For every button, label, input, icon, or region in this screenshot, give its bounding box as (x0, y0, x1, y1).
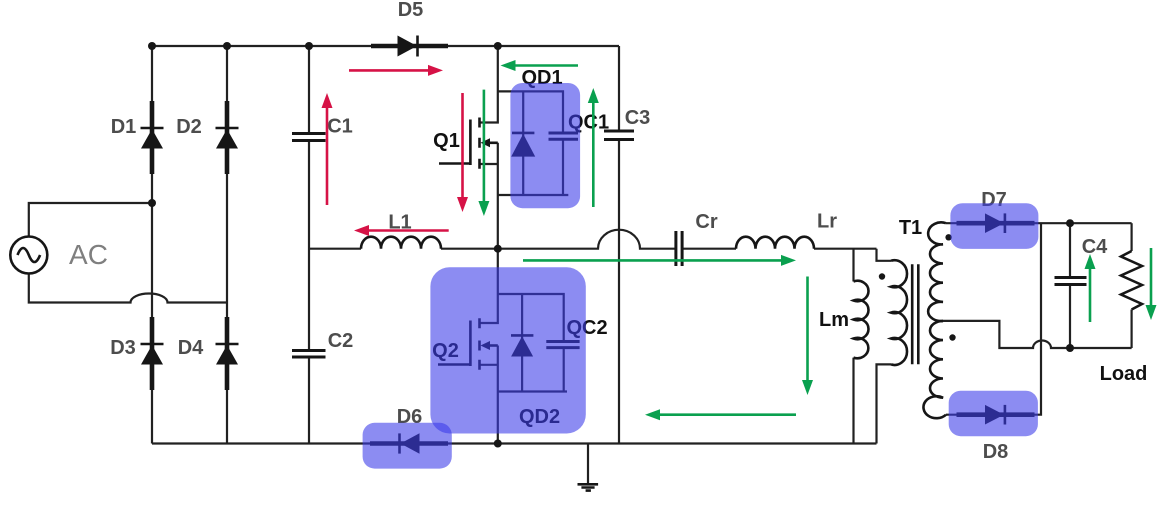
wire top rail (152, 45, 619, 47)
arrow red down Q1 (457, 93, 468, 212)
diode D4 (216, 317, 239, 390)
secondary polarity dot top (945, 234, 951, 240)
primary polarity dot (879, 273, 885, 279)
diode D2 (216, 101, 239, 174)
highlight box D6 (363, 423, 452, 469)
capacitor C1 (292, 134, 326, 141)
wire Lm branch (852, 249, 854, 444)
arrow red left L1 (354, 225, 449, 236)
svg-text:AC: AC (69, 239, 108, 270)
wire C1 C2 column (308, 46, 310, 444)
svg-text:C2: C2 (328, 330, 354, 352)
highlight box Q2 (430, 267, 585, 433)
capacitor QC2 (563, 348, 565, 392)
diode D6 (370, 433, 448, 453)
wire D1 D3 column (151, 46, 153, 444)
inductor Lr (736, 237, 814, 249)
capacitor C3 (604, 131, 634, 140)
capacitor Cr (676, 231, 682, 266)
svg-text:Cr: Cr (695, 211, 717, 233)
AC source U0 (10, 237, 47, 274)
secondary polarity dot bottom (949, 334, 955, 340)
arrow green up C4 (1085, 254, 1096, 322)
junction node AC D1 (148, 199, 156, 207)
wire QD2 branch bottom (498, 390, 567, 392)
svg-text:D1: D1 (111, 116, 137, 138)
svg-text:D3: D3 (110, 337, 136, 359)
svg-text:Load: Load (1100, 363, 1148, 385)
wire D2 D4 column (226, 46, 228, 444)
diode D1 (141, 101, 164, 174)
junction node top rail C1 (305, 42, 313, 50)
wire Q2 drain column (480, 249, 498, 323)
diode D3 (141, 317, 164, 390)
diode D8 (957, 405, 1035, 425)
inductor L1 (361, 237, 441, 249)
svg-text:D8: D8 (983, 441, 1009, 463)
junction node C4 bottom (1066, 344, 1074, 352)
wire QD1 branch bottom (498, 194, 569, 196)
wire C3 column (618, 46, 620, 444)
diode D5 (371, 36, 448, 57)
arrow red right top (349, 65, 443, 76)
arrow green left bottom (645, 409, 796, 420)
svg-text:D2: D2 (176, 116, 202, 138)
svg-text:D5: D5 (398, 0, 424, 21)
ground (578, 444, 599, 491)
transformer T1 secondary top winding (928, 222, 946, 321)
svg-text:Q1: Q1 (433, 130, 460, 152)
inductor Lm (854, 281, 869, 358)
svg-text:C3: C3 (625, 107, 651, 129)
arrow red up C1 (322, 93, 333, 205)
svg-text:Lr: Lr (817, 211, 837, 233)
highlight box QD1 QC1 (510, 83, 580, 208)
wire QD2 branch top (498, 294, 564, 342)
svg-text:D4: D4 (178, 337, 204, 359)
junction node top rail D1 (148, 42, 156, 50)
svg-text:Lm: Lm (819, 309, 849, 331)
wire D8 branch (946, 223, 1041, 415)
junction node C4 top (1066, 219, 1074, 227)
wire middle rail with hop over C3 (309, 230, 877, 249)
transformer T1 primary winding (891, 260, 907, 365)
capacitor C2 (292, 351, 326, 358)
wire QD1 branch top (498, 91, 563, 133)
resistor Load (1121, 223, 1142, 348)
wire center tap return with hop (943, 321, 1132, 348)
transistor Q2 (438, 318, 498, 370)
junction node top rail Q1 (494, 42, 502, 50)
wire primary bottom (877, 364, 892, 443)
diode QD2 (511, 294, 533, 392)
wire Q1 drain column (480, 46, 498, 123)
wire D7 output (946, 222, 1132, 224)
capacitor QC1 (562, 139, 564, 195)
wire AC top lead (29, 203, 152, 237)
svg-text:T1: T1 (899, 217, 922, 239)
arrow green up QC1 (588, 88, 599, 207)
wire Q1 source column (480, 143, 498, 249)
svg-text:C1: C1 (327, 116, 353, 138)
highlight box D8 (949, 391, 1038, 437)
arrow green right mid (523, 255, 796, 266)
junction node switch mid (494, 245, 502, 253)
arrow green down Lm (802, 277, 813, 396)
transistor Q1 (439, 118, 498, 169)
junction node top rail D2 (223, 42, 231, 50)
diode D7 (957, 213, 1035, 233)
wire bottom rail (152, 442, 877, 444)
wire primary top (877, 249, 892, 261)
svg-text:C4: C4 (1082, 236, 1108, 258)
arrow green down Q1 (478, 90, 489, 216)
arrow green down Load (1146, 248, 1157, 320)
capacitor C4 (1069, 223, 1071, 348)
highlight box D7 (950, 203, 1038, 249)
transformer T1 secondary bottom winding (923, 321, 946, 418)
wire AC bottom lead with hop (29, 274, 227, 303)
transformer core (912, 264, 918, 364)
arrow green left top (501, 60, 579, 71)
junction node bottom rail Q2 (494, 440, 502, 448)
diode QD1 (511, 91, 535, 195)
wire Q2 source column (480, 346, 498, 444)
